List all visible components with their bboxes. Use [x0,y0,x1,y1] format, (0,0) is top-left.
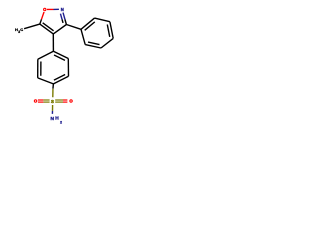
double bond C4=C5 inner line [43,23,54,31]
bond O1-N2 (isoxazole, red/blue halves) [47,8,59,10]
benzene edge LL-UL inner (aromatic) [40,62,42,76]
phenyl edge TL-TR [95,18,110,22]
benzene edge UR-LR [67,59,69,77]
bond S-N (olive/blue halves) [51,105,53,114]
benzene edge LR-bottom outer [53,76,68,84]
svg-text:2: 2 [60,120,62,124]
phenyl edge BL-ipso [81,29,85,44]
phenyl edge R-B [101,38,113,48]
benzene edge bottom-LL [38,78,54,84]
double bond S=O left, upper line [38,99,50,101]
double bond N2=C3 inner line [60,14,63,23]
bond C3-phenyl ipso [66,25,81,30]
benzene edge top-UR outer [53,51,68,58]
benzene edge LL-UL outer [37,59,39,78]
phenyl edge TR-R outer [110,22,113,39]
double bond N2=C3 outer line [63,13,66,25]
phenyl edge TR-R inner (aromatic) [107,24,109,36]
benzene edge top-UR inner (aromatic) [54,55,65,60]
double bond S=O right, lower line [55,101,67,103]
phenyl edge B-BL inner (aromatic) [88,42,100,44]
benzene edge LR-bottom inner (aromatic) [54,74,65,80]
benzene edge UL-top [38,51,54,59]
phenyl edge B-BL outer [85,45,101,48]
bond C5-methyl [24,24,40,29]
svg-text:N: N [50,116,54,122]
svg-text:H: H [55,116,59,122]
svg-text:S: S [51,99,54,104]
svg-text:C: C [20,27,23,32]
bond C3-C4 (isoxazole) [53,25,66,34]
phenyl edge ipso-TL inner (aromatic) [85,22,95,30]
phenyl edge ipso-TL outer [81,18,95,29]
double bond S=O left, lower line [38,101,50,103]
double bond C4=C5 outer line [40,24,54,34]
bond C4-benzene top [52,34,54,51]
double bond S=O right, upper line [55,99,67,101]
svg-text:N: N [61,7,64,12]
bond benzene-S (black/olive halves) [52,84,55,97]
bond C5-O1 (black/red halves) [40,12,44,24]
